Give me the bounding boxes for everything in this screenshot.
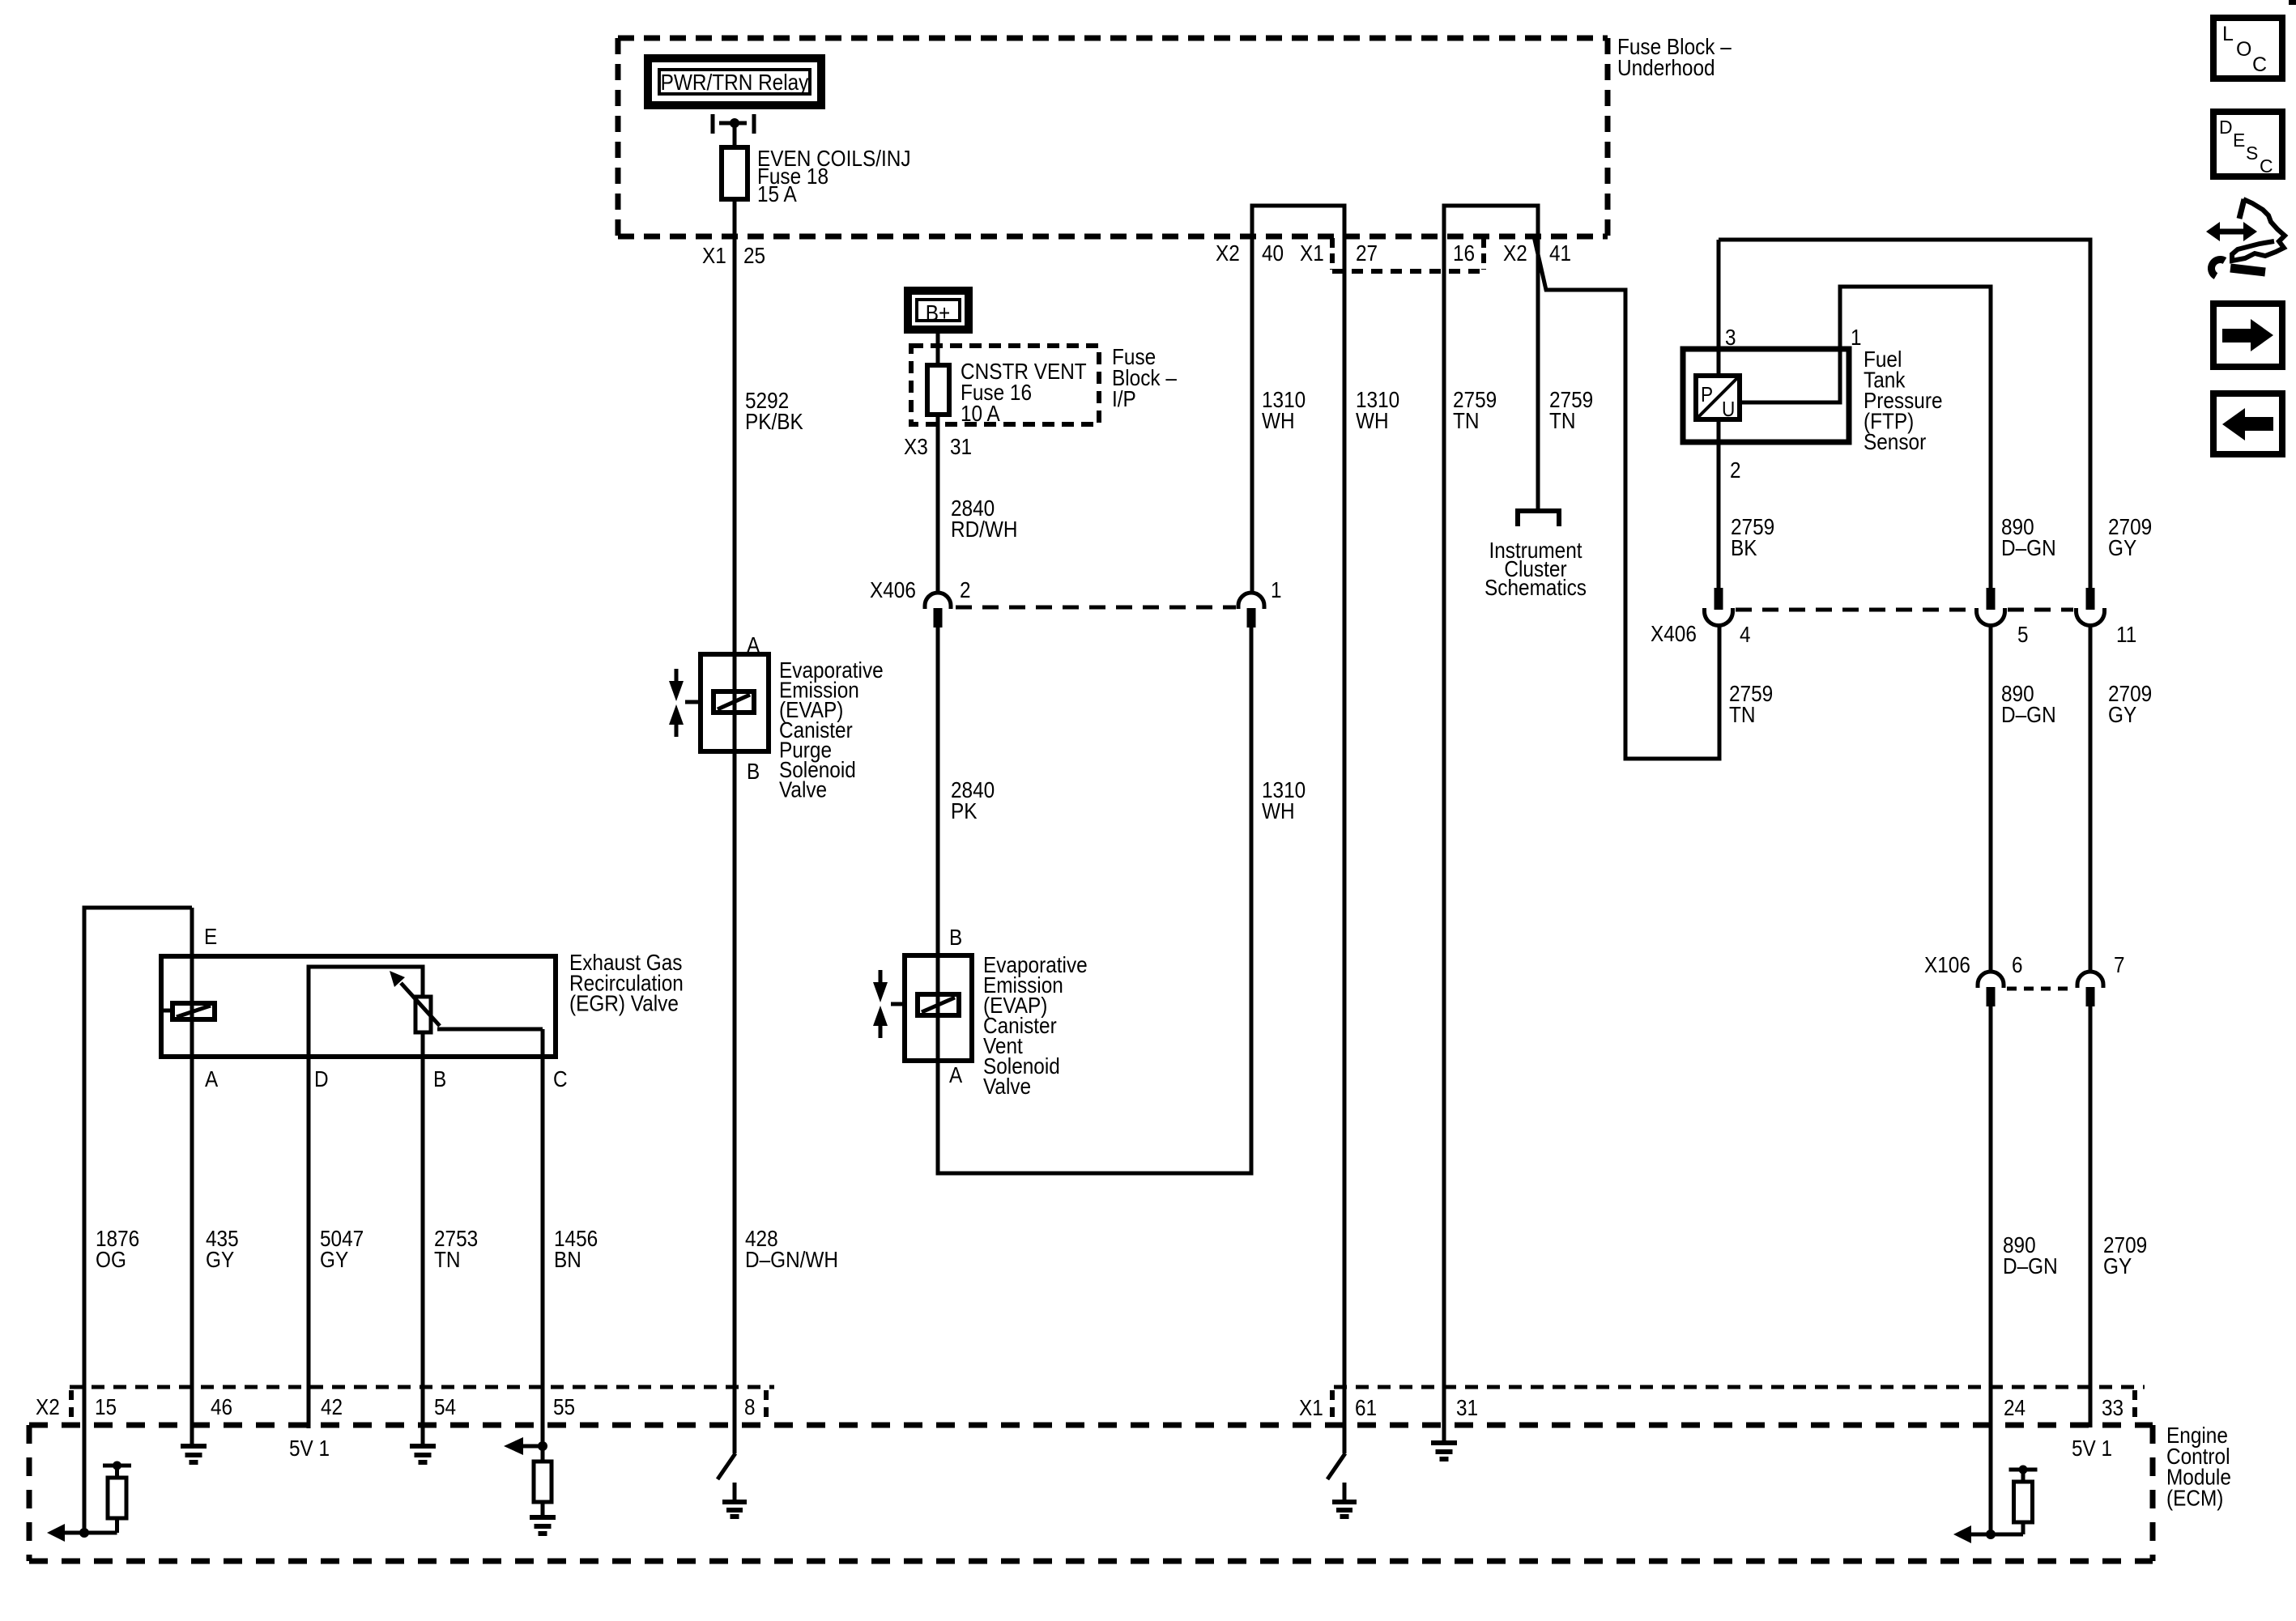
svg-text:X406: X406: [870, 577, 916, 602]
svg-text:24: 24: [2004, 1395, 2026, 1420]
connector X406 pin 2: [925, 593, 951, 609]
svg-text:25: 25: [743, 243, 765, 268]
icon back arrow box: [2213, 394, 2282, 454]
svg-text:PWR/TRN Relay: PWR/TRN Relay: [661, 70, 809, 95]
jumper loop fuse block 40 to 27: [1252, 206, 1344, 236]
svg-text:E: E: [204, 924, 217, 949]
instrument cluster bracket: [1518, 511, 1559, 526]
svg-text:I/P: I/P: [1112, 386, 1136, 411]
svg-text:61: 61: [1355, 1395, 1377, 1420]
EGR solenoid coil: [173, 1003, 215, 1019]
svg-text:A: A: [205, 1066, 218, 1091]
svg-text:8: 8: [744, 1394, 756, 1419]
svg-text:B: B: [433, 1066, 446, 1091]
EVAP canister vent solenoid valve box: [905, 955, 972, 1061]
icon LOC box: [2213, 18, 2282, 79]
svg-text:WH: WH: [1262, 798, 1295, 823]
fuel tank pressure sensor box: [1683, 349, 1849, 442]
EGR wiper to C: [437, 1027, 543, 1032]
ECM connector dashed line right: [1334, 1385, 2145, 1389]
svg-text:D–GN: D–GN: [2003, 1253, 2058, 1279]
svg-text:X1: X1: [1299, 1395, 1323, 1420]
icon forward arrow box: [2213, 304, 2282, 367]
svg-text:GY: GY: [2108, 535, 2136, 560]
vent valve symbol: [879, 970, 883, 1038]
power feed B+ box: [908, 291, 969, 330]
svg-text:Sensor: Sensor: [1864, 429, 1926, 454]
svg-text:15 A: 15 A: [757, 181, 797, 206]
purge solenoid coil: [714, 691, 754, 713]
wire EGR E through solenoid to A: [190, 908, 194, 1444]
svg-text:7: 7: [2114, 952, 2125, 977]
svg-text:Schematics: Schematics: [1485, 575, 1587, 600]
svg-text:PK: PK: [951, 798, 978, 823]
svg-text:B: B: [949, 925, 962, 950]
fuse block underhood dashed outline: [618, 36, 1608, 41]
svg-text:GY: GY: [2103, 1253, 2132, 1279]
EGR solenoid stub: [164, 1009, 173, 1013]
svg-text:TN: TN: [434, 1247, 461, 1272]
fuse F16 CNSTR VENT 10A: [927, 365, 949, 415]
connector separator dashed: [1330, 1390, 1335, 1423]
icon wrench: [2230, 268, 2265, 272]
svg-text:TN: TN: [1549, 408, 1576, 433]
svg-text:B: B: [747, 759, 760, 784]
connector X106 pin 7: [2077, 972, 2103, 988]
svg-text:42: 42: [321, 1394, 343, 1419]
svg-text:D–GN/WH: D–GN/WH: [745, 1247, 838, 1272]
svg-text:41: 41: [1549, 240, 1571, 266]
wire 5292 PK/BK fuse18 to EVAP purge solenoid: [733, 199, 737, 654]
wire relay to fuse 18: [733, 123, 737, 147]
ECM box dashed outline: [29, 1423, 2153, 1428]
wire 1876 OG EGR E loop: [84, 908, 192, 1533]
EVAP canister purge solenoid valve box: [701, 654, 769, 751]
relay K name box PWR/TRN Relay: [648, 58, 821, 105]
ECM resistor-to-ground at pin 55: [523, 1446, 543, 1516]
fuse block I/P dashed outline: [911, 346, 1099, 424]
svg-text:1: 1: [1851, 325, 1862, 350]
wire 2759 TN fuse block 41 to instrument cluster: [1536, 236, 1540, 511]
connector X406 pin 1: [1238, 593, 1264, 609]
svg-text:GY: GY: [320, 1247, 348, 1272]
svg-text:5V 1: 5V 1: [289, 1436, 330, 1461]
svg-text:5V 1: 5V 1: [2072, 1436, 2112, 1461]
page corner mark: [2289, 0, 2296, 5]
svg-text:TN: TN: [1453, 408, 1480, 433]
icon DESC box: [2213, 112, 2282, 177]
vent solenoid coil: [918, 994, 959, 1015]
connector separator dashed: [69, 1390, 74, 1423]
svg-text:46: 46: [211, 1394, 232, 1419]
svg-text:X406: X406: [1651, 621, 1697, 646]
wire B+ to fuse 16: [936, 333, 940, 365]
svg-text:54: 54: [434, 1394, 456, 1419]
wire through purge solenoid: [733, 654, 737, 751]
svg-text:X3: X3: [904, 434, 928, 459]
icon harness connector outline: [2239, 199, 2244, 219]
wire 2759 BK FTP pin2 to X406 pin4: [1717, 419, 1721, 588]
svg-text:O: O: [2236, 38, 2251, 61]
FTP sensor P/U element: [1696, 376, 1740, 419]
purge solenoid stub: [685, 700, 701, 704]
svg-text:RD/WH: RD/WH: [951, 517, 1018, 542]
wire 1310 WH vent solenoid A to X406 pin1: [938, 627, 1251, 1173]
svg-text:BK: BK: [1731, 535, 1757, 560]
svg-text:L: L: [2222, 23, 2234, 45]
wire 1456 BN EGR C to ECM 55: [541, 1029, 545, 1446]
svg-text:15: 15: [95, 1394, 117, 1419]
svg-text:D: D: [2219, 117, 2233, 138]
svg-text:16: 16: [1453, 240, 1475, 266]
jumper loop fuse block 16 to 41: [1444, 206, 1538, 236]
wire EGR D end at 42: [307, 1057, 311, 1428]
svg-text:A: A: [747, 632, 760, 657]
wire 428 D-GN/WH purge solenoid to ECM 8: [733, 751, 737, 1453]
svg-text:OG: OG: [96, 1247, 126, 1272]
connector X406 pin 4: [1715, 588, 1723, 610]
svg-text:5: 5: [2017, 622, 2029, 647]
wire 890 D-GN FTP pin1 to X406 pin5: [1740, 287, 1991, 588]
svg-text:31: 31: [950, 434, 972, 459]
svg-text:TN: TN: [1729, 702, 1756, 727]
connector X106 dashed line: [2007, 987, 2073, 991]
connector X1 notch dashed: [1330, 238, 1335, 270]
svg-text:3: 3: [1725, 325, 1736, 350]
wire 890 D-GN X106 pin6 to ECM 24: [1989, 1006, 1993, 1534]
svg-text:(ECM): (ECM): [2166, 1485, 2223, 1510]
connector X406 pin 5: [1987, 588, 1996, 610]
fuse F18 EVEN COILS/INJ 15A: [722, 147, 748, 199]
svg-text:GY: GY: [206, 1247, 234, 1272]
connector separator dashed: [764, 1390, 769, 1423]
svg-text:B+: B+: [926, 300, 951, 325]
case ground at ECM pin 8: [718, 1453, 735, 1500]
svg-text:S: S: [2246, 143, 2258, 164]
wire 2709 GY FTP pin3 to X406 pin11: [1719, 240, 2090, 588]
ECM pullup at pin 15: [65, 1466, 131, 1533]
ground at ECM pin 31: [1431, 1443, 1457, 1459]
wire EGR B ground at 54: [410, 1446, 436, 1462]
EGR position sensor resistor: [415, 997, 431, 1032]
wire 1310 WH fuse block 40 to X406 pin1: [1250, 236, 1254, 594]
svg-text:X2: X2: [1216, 240, 1240, 266]
wire FTP pin3 up: [1717, 240, 1721, 376]
svg-text:X2: X2: [36, 1394, 60, 1419]
svg-text:Underhood: Underhood: [1617, 55, 1715, 80]
svg-text:D–GN: D–GN: [2001, 702, 2056, 727]
svg-text:X1: X1: [702, 243, 726, 268]
svg-text:27: 27: [1356, 240, 1378, 266]
case ground at ECM pin 61: [1327, 1453, 1345, 1500]
wire 2709 GY X106 pin7 to ECM 33: [2089, 1006, 2093, 1427]
connector separator dashed: [2132, 1390, 2137, 1423]
svg-text:2: 2: [960, 577, 971, 602]
svg-text:A: A: [949, 1062, 962, 1087]
svg-text:X2: X2: [1503, 240, 1527, 266]
wire 2759 TN fuse block 16 to ECM 31: [1442, 236, 1446, 1440]
svg-text:WH: WH: [1262, 408, 1295, 433]
svg-text:C: C: [553, 1066, 568, 1091]
wire 890 D-GN X406 pin5 to X106 pin6: [1989, 623, 1993, 973]
wire 2840 RD/WH fuse16 to X406 pin2: [936, 415, 940, 594]
wire 2840 PK X406 pin2 to EVAP vent solenoid: [936, 627, 940, 955]
svg-text:10 A: 10 A: [961, 401, 1000, 426]
wire 2759 TN fuse block 41 to X406 pin4: [1534, 236, 1719, 759]
svg-text:(EGR) Valve: (EGR) Valve: [569, 991, 679, 1016]
svg-text:2: 2: [1730, 457, 1741, 483]
svg-text:31: 31: [1456, 1395, 1478, 1420]
wire 1310 WH fuse block 27 to ECM 61: [1343, 236, 1347, 1453]
svg-text:U: U: [1722, 397, 1735, 421]
svg-text:GY: GY: [2108, 702, 2136, 727]
svg-text:6: 6: [2012, 952, 2023, 977]
connector X406 dashed line: [956, 606, 1236, 610]
svg-text:D–GN: D–GN: [2001, 535, 2056, 560]
svg-text:1: 1: [1271, 577, 1282, 602]
svg-text:Valve: Valve: [779, 777, 827, 802]
EGR pot wiper arrow: [401, 983, 440, 1026]
icon harness double arrow: [2217, 229, 2246, 235]
svg-text:PK/BK: PK/BK: [745, 409, 803, 434]
svg-text:X1: X1: [1300, 240, 1324, 266]
wire 24 inside ECM: [1989, 1427, 1993, 1534]
purge valve symbol: [675, 669, 679, 737]
svg-text:P: P: [1701, 382, 1713, 406]
svg-text:C: C: [2252, 53, 2267, 76]
svg-text:WH: WH: [1356, 408, 1389, 433]
svg-text:4: 4: [1740, 622, 1751, 647]
vent solenoid stub: [891, 1002, 905, 1006]
EGR pot top loop wire D: [309, 967, 423, 1057]
connector X406 right dashed line b: [2008, 608, 2073, 612]
connector X106 pin 6: [1978, 972, 2004, 988]
relay contact symbol: [711, 114, 715, 134]
ECM connector dashed line left: [70, 1385, 774, 1389]
wire through vent solenoid: [936, 955, 940, 1061]
svg-text:E: E: [2233, 130, 2245, 151]
wire 2709 GY X406 pin11 to X106 pin7: [2089, 623, 2093, 973]
svg-text:BN: BN: [554, 1247, 581, 1272]
svg-text:55: 55: [553, 1394, 575, 1419]
svg-text:C: C: [2260, 155, 2273, 177]
svg-text:Valve: Valve: [983, 1074, 1031, 1099]
svg-text:D: D: [314, 1066, 329, 1091]
svg-text:33: 33: [2102, 1395, 2123, 1420]
EGR valve box: [161, 956, 556, 1057]
connector X406 pin 11: [2086, 588, 2095, 610]
EGR pot wire B down: [421, 1032, 425, 1444]
connector X406 right dashed line a: [1736, 608, 1974, 612]
svg-text:11: 11: [2116, 622, 2136, 647]
svg-text:X106: X106: [1924, 952, 1970, 977]
wire EGR A ground at 46: [181, 1446, 207, 1462]
ECM pullup at pin 24: [1971, 1470, 2038, 1534]
svg-text:40: 40: [1262, 240, 1284, 266]
